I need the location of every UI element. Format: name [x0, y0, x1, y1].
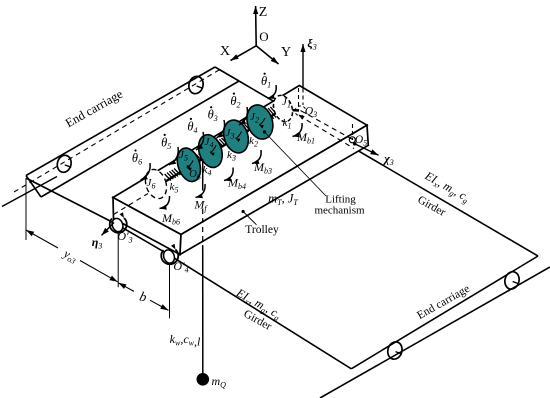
wheel (bottom band, left) [386, 340, 404, 361]
spring k4 [192, 157, 198, 164]
rope upper [202, 159, 204, 191]
wheel (top-left band, lower) [55, 154, 73, 174]
dashed circle at O3 [295, 106, 306, 116]
dashed axis line O3 to O5 [301, 111, 353, 140]
spring k3 [215, 142, 221, 149]
marker O5 [349, 137, 355, 143]
rotor J2 [243, 102, 277, 143]
rotor J1 (dashed) [270, 93, 295, 124]
dashed vertical below N corner [298, 88, 300, 110]
svg-text:X: X [220, 44, 230, 59]
rope lower [202, 246, 204, 374]
tiny arrowhead on dashed line at O3 [299, 115, 305, 120]
hook J4 [210, 146, 216, 153]
hook J2 [259, 118, 265, 125]
extension line O3p [117, 232, 119, 287]
end carriage front edge [41, 81, 239, 197]
girder 1 line [26, 178, 351, 369]
rotor J5 [173, 145, 204, 184]
axis Y [256, 46, 278, 64]
spring k5 [165, 174, 171, 181]
axis xi3 [302, 44, 304, 87]
end carriage dashed centerline [14, 70, 219, 192]
dimension y_o3 [26, 230, 58, 248]
axis Z [255, 6, 258, 46]
svg-text:O: O [259, 29, 268, 44]
drive shaft [150, 110, 299, 192]
trolley front face [180, 125, 368, 254]
axis X [231, 46, 257, 61]
extension line O4p [169, 264, 171, 318]
girder 2 main line [356, 150, 538, 257]
end carriage NE end edge [215, 67, 239, 81]
trolley left face [113, 198, 181, 255]
center dot J2 [263, 130, 266, 133]
spring k2 [240, 127, 246, 134]
axis eta3 [102, 223, 115, 236]
svg-text:mechanism: mechanism [314, 205, 365, 217]
rotor J6 (dashed) [142, 167, 170, 202]
trolley wheel O'4 [162, 248, 176, 264]
dashed hidden girder edge [299, 116, 354, 149]
trolley top face [113, 86, 367, 235]
wheel (bottom band, right) [503, 270, 521, 291]
end carriage left end edge [26, 176, 41, 198]
pointer trolley [242, 210, 245, 213]
rotor J3 [220, 117, 253, 156]
rotor J4 [195, 132, 227, 171]
rope hidden in trolley (dashed) [202, 209, 204, 246]
wheel (top-left band, upper) [187, 75, 205, 96]
girder 2 stub at end carriage [239, 81, 274, 101]
spring k1 [261, 112, 269, 121]
dashed vertical at O5 [352, 124, 354, 140]
load mass ball [197, 373, 210, 386]
hook J3 [236, 132, 242, 139]
pointer lifting mechanism [265, 132, 327, 196]
dashed shaft axis inside trolley [114, 194, 149, 215]
dimension b [118, 283, 134, 292]
svg-text:Z: Z [259, 5, 268, 20]
svg-text:Trolley: Trolley [245, 224, 279, 236]
svg-text:Y: Y [281, 45, 291, 60]
center dot J5 / O6 [187, 165, 190, 168]
end carriage (top-left) top edge [26, 67, 215, 176]
rail segment left [2, 177, 57, 207]
end carriage (bottom-right) top edge [351, 256, 538, 369]
end carriage (bottom-right) bottom edge [320, 267, 550, 398]
axis chi3 [355, 144, 379, 156]
trolley wheel O'3 [110, 217, 124, 233]
extension line frame corner [25, 178, 27, 240]
